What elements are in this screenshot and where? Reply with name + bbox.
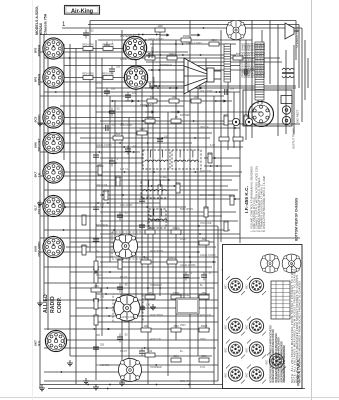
svg-text:50M: 50M (173, 354, 178, 358)
svg-text:6K7: 6K7 (245, 347, 249, 352)
svg-text:AUDIO: AUDIO (37, 114, 41, 125)
svg-text:1ST DET: 1ST DET (37, 202, 41, 215)
svg-text:RED-GRN: RED-GRN (82, 43, 93, 46)
svg-text:6K7: 6K7 (245, 324, 249, 329)
svg-text:TRIMMER: TRIMMER (96, 224, 108, 227)
svg-text:ANTENNA: ANTENNA (120, 34, 134, 38)
svg-text:250M: 250M (117, 258, 124, 262)
svg-text:1MEG: 1MEG (168, 52, 175, 56)
svg-text:GANG COND: GANG COND (180, 264, 196, 267)
svg-text:10M: 10M (143, 324, 148, 328)
svg-text:6K7: 6K7 (245, 372, 249, 377)
svg-text:500: 500 (116, 132, 121, 136)
svg-text:VOL CONT: VOL CONT (120, 124, 133, 127)
svg-text:50M OHMS: 50M OHMS (150, 250, 163, 253)
svg-text:250: 250 (132, 92, 137, 95)
svg-text:2ND I.F.: 2ND I.F. (180, 380, 189, 383)
svg-text:250: 250 (100, 296, 105, 299)
svg-text:6K7: 6K7 (224, 347, 228, 352)
svg-text:25M: 25M (173, 324, 178, 328)
svg-text:6K7: 6K7 (224, 372, 228, 377)
svg-text:OSC COIL: OSC COIL (96, 184, 109, 187)
svg-text:VOL CONT: VOL CONT (120, 204, 133, 207)
svg-text:OUTPUT TRANS: OUTPUT TRANS (292, 128, 296, 149)
svg-text:GANG COND: GANG COND (148, 38, 164, 41)
svg-text:SPEAKER FIELD 450 OHMS: SPEAKER FIELD 450 OHMS (262, 43, 266, 78)
svg-text:1ST I.F.: 1ST I.F. (120, 168, 129, 171)
svg-text:25M: 25M (201, 291, 206, 295)
svg-text:250V: 250V (200, 338, 206, 341)
svg-text:2MEG: 2MEG (96, 164, 103, 168)
svg-text:TRIMMER: TRIMMER (140, 104, 152, 107)
svg-text:2MEG: 2MEG (146, 115, 153, 119)
svg-text:SW: SW (96, 334, 101, 337)
svg-text:POWER: POWER (152, 76, 156, 88)
svg-text:500: 500 (224, 114, 229, 118)
svg-text:ANT COIL: ANT COIL (150, 338, 162, 341)
svg-text:A-526X: A-526X (39, 22, 43, 35)
svg-text:A.V.C.: A.V.C. (96, 82, 103, 85)
svg-text:6.3V: 6.3V (210, 144, 215, 147)
svg-text:50M: 50M (93, 314, 98, 318)
svg-text:VOLTAGE READINGS TAKEN WITH 10: VOLTAGE READINGS TAKEN WITH 1000 OHM PER… (282, 345, 286, 383)
svg-text:POWER: POWER (37, 44, 41, 56)
svg-text:PADDER: PADDER (180, 294, 190, 297)
svg-text:10M: 10M (139, 127, 144, 131)
svg-text:.02: .02 (146, 348, 150, 351)
svg-text:1MEG: 1MEG (114, 175, 121, 179)
svg-text:100: 100 (146, 304, 151, 307)
svg-text:R.F.: R.F. (37, 340, 41, 346)
svg-text:500: 500 (176, 182, 181, 186)
svg-text:TRIMMER: TRIMMER (150, 284, 162, 287)
svg-text:ANT COIL: ANT COIL (150, 220, 162, 223)
svg-text:1MEG: 1MEG (80, 244, 87, 248)
svg-text:A.V.C.: A.V.C. (96, 274, 103, 277)
svg-text:SPEAKER PLUG: SPEAKER PLUG (295, 26, 299, 48)
svg-text:50M: 50M (201, 354, 206, 358)
svg-text:2MEG: 2MEG (168, 256, 175, 260)
svg-text:50M: 50M (203, 206, 208, 210)
svg-text:100: 100 (164, 136, 169, 139)
svg-text:.05: .05 (124, 284, 128, 287)
svg-text:ANT COIL: ANT COIL (120, 380, 132, 383)
svg-text:100: 100 (100, 204, 105, 207)
svg-text:6. OSCILLATOR TRACKING 455 K.C: 6. OSCILLATOR TRACKING 455 K.C. I.F. AMP (262, 175, 266, 232)
svg-text:100: 100 (111, 88, 116, 91)
svg-text:VOLTAGE TABLE: VOLTAGE TABLE (297, 360, 301, 386)
svg-text:I.F.-455 K.C.: I.F.-455 K.C. (244, 186, 250, 213)
svg-text:10M: 10M (193, 95, 198, 99)
svg-text:10M: 10M (171, 95, 176, 99)
svg-text:.02: .02 (90, 30, 94, 33)
svg-text:OSC-MOD: OSC-MOD (37, 241, 41, 257)
svg-text:Chassis 75A: Chassis 75A (44, 13, 48, 35)
svg-text:250M: 250M (173, 291, 180, 295)
svg-text:50M OHMS: 50M OHMS (180, 208, 193, 211)
svg-text:B+: B+ (180, 350, 184, 353)
svg-text:POWER: POWER (151, 46, 155, 58)
svg-text:TRIMMER: TRIMMER (150, 366, 162, 369)
svg-text:.05: .05 (124, 334, 128, 337)
svg-text:TONE: TONE (160, 176, 167, 179)
svg-text:25M: 25M (223, 220, 228, 224)
svg-text:6.3V: 6.3V (120, 294, 125, 297)
svg-text:250M: 250M (229, 194, 236, 198)
svg-text:RED-GRN: RED-GRN (102, 43, 113, 46)
svg-text:B+: B+ (200, 284, 204, 287)
svg-text:2MEG: 2MEG (172, 226, 179, 230)
svg-text:10M: 10M (93, 284, 98, 288)
svg-text:250: 250 (116, 66, 121, 69)
svg-text:A.V.C.: A.V.C. (180, 238, 187, 241)
svg-text:6K7: 6K7 (224, 284, 228, 289)
svg-text:TRIMMER: TRIMMER (160, 64, 172, 67)
svg-text:50M OHMS: 50M OHMS (96, 364, 109, 367)
svg-text:GANG COND: GANG COND (200, 254, 216, 257)
svg-text:.05: .05 (116, 108, 120, 111)
svg-text:.05: .05 (174, 115, 178, 119)
svg-text:6K7: 6K7 (224, 324, 228, 329)
svg-text:B+: B+ (96, 250, 100, 253)
svg-text:250: 250 (100, 344, 105, 347)
svg-text:6.3V: 6.3V (200, 366, 205, 369)
svg-text:RADIO: RADIO (50, 296, 56, 313)
svg-text:6X5 RECT.: 6X5 RECT. (296, 109, 300, 123)
svg-text:500: 500 (202, 237, 207, 241)
svg-text:50M: 50M (211, 38, 216, 42)
svg-text:GANG COND: GANG COND (120, 316, 136, 319)
svg-text:RED-GRN: RED-GRN (102, 72, 113, 75)
svg-text:100: 100 (230, 88, 235, 91)
svg-text:250M: 250M (103, 189, 110, 193)
svg-text:50M: 50M (243, 114, 248, 118)
svg-text:50M: 50M (143, 256, 148, 260)
svg-text:BOTTOM VIEW OF CHASSIS: BOTTOM VIEW OF CHASSIS (295, 198, 299, 241)
svg-text:250M: 250M (183, 34, 190, 38)
svg-text:I.F.: I.F. (37, 172, 41, 176)
svg-text:OSC COIL: OSC COIL (200, 222, 213, 225)
svg-text:.02: .02 (208, 272, 212, 275)
svg-text:.05: .05 (124, 212, 128, 215)
svg-text:.05: .05 (148, 291, 152, 295)
svg-text:Air-King: Air-King (71, 8, 94, 14)
svg-text:25M: 25M (81, 214, 86, 218)
svg-text:250M: 250M (201, 324, 208, 328)
svg-text:GANG COND: GANG COND (120, 58, 136, 61)
svg-text:2ND DET: 2ND DET (37, 138, 41, 151)
svg-text:PADDER: PADDER (180, 114, 190, 117)
svg-text:250V: 250V (180, 324, 186, 327)
svg-text:OSC COIL: OSC COIL (120, 234, 133, 237)
svg-text:ANT COIL: ANT COIL (200, 314, 212, 317)
svg-text:CORP.: CORP. (57, 297, 63, 313)
svg-text:PILOT: PILOT (120, 350, 128, 353)
svg-text:POWER: POWER (37, 73, 41, 85)
svg-text:GANG COND: GANG COND (186, 42, 202, 45)
svg-text:.02: .02 (132, 146, 136, 149)
svg-text:500: 500 (236, 52, 241, 56)
svg-text:500: 500 (150, 95, 155, 99)
svg-text:GANG COND: GANG COND (96, 144, 112, 147)
svg-text:VOL CONT: VOL CONT (200, 90, 213, 93)
svg-text:ALLIED: ALLIED (43, 294, 49, 313)
svg-text:50M OHMS: 50M OHMS (150, 314, 163, 317)
svg-text:50M: 50M (207, 152, 212, 156)
svg-text:ANT COIL: ANT COIL (200, 170, 212, 173)
svg-text:RED-GRN: RED-GRN (82, 72, 93, 75)
svg-text:10M: 10M (157, 24, 162, 28)
svg-text:PILOT: PILOT (120, 276, 128, 279)
svg-text:2ND I.F.: 2ND I.F. (200, 126, 209, 129)
svg-text:.05: .05 (111, 124, 115, 127)
svg-text:GANG COND: GANG COND (200, 194, 216, 197)
svg-text:6K7: 6K7 (245, 284, 249, 289)
